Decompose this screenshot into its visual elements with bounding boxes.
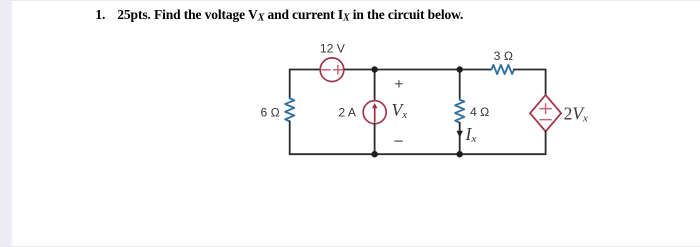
node dot: bottom node C (2A branch): [371, 151, 377, 157]
label 3 Ω: [494, 49, 513, 63]
wire: 2A branch, top segment: [374, 70, 376, 102]
svg-text:2Vx: 2Vx: [564, 104, 588, 125]
node dot: bottom node D (4Ω branch): [457, 151, 463, 157]
label Vx: [392, 100, 408, 121]
resistor 3Ω zigzag: [492, 65, 515, 74]
problem title number: [95, 8, 105, 22]
wire: bottom horizontal: [290, 153, 546, 155]
svg-text:12 V: 12 V: [320, 42, 346, 56]
wire: left vertical, bottom segment (below 6Ω): [289, 121, 291, 154]
wire: top-left horizontal (corner to 12V source): [290, 69, 321, 71]
dependent source 2Vx (diamond with + -): [530, 95, 561, 132]
label 2Vx: [564, 104, 588, 125]
wire: top-right horizontal (3Ω to corner): [514, 69, 546, 71]
wire: 2A branch, bottom segment: [374, 124, 376, 155]
problem title text: [117, 8, 463, 24]
wire: 4Ω branch, bottom segment with Ix arrowhead: [457, 123, 463, 155]
svg-text:6 Ω: 6 Ω: [261, 106, 280, 120]
label 12 V: [320, 42, 346, 56]
node dot: top node B (4Ω branch): [457, 66, 463, 72]
svg-text:3 Ω: 3 Ω: [494, 49, 513, 63]
label Ix: [465, 124, 477, 145]
resistor 4Ω zigzag: [455, 100, 464, 123]
wire: left vertical, top segment (above 6Ω): [289, 70, 291, 99]
svg-text:Vx: Vx: [392, 100, 408, 121]
wire: right vertical, top segment: [545, 70, 547, 96]
wire: top horizontal (12V source to 3Ω): [345, 69, 492, 71]
label Vx minus sign: [395, 140, 402, 142]
wire: 4Ω branch, top segment: [459, 70, 461, 100]
label 6 Ω: [261, 106, 280, 120]
resistor 6Ω zigzag: [285, 98, 294, 121]
wire: right vertical, bottom segment: [545, 132, 547, 155]
svg-text:2 A: 2 A: [338, 105, 356, 119]
voltage source 12V (circle with - +): [320, 58, 344, 82]
label 4 Ω: [470, 105, 489, 119]
current source 2A (circle with up arrow): [363, 101, 386, 124]
label 2 A: [338, 105, 356, 119]
svg-text:Ix: Ix: [465, 124, 477, 145]
label Vx plus sign: [396, 81, 402, 87]
svg-text:4 Ω: 4 Ω: [470, 105, 489, 119]
node dot: top node A (2A branch): [371, 66, 377, 72]
